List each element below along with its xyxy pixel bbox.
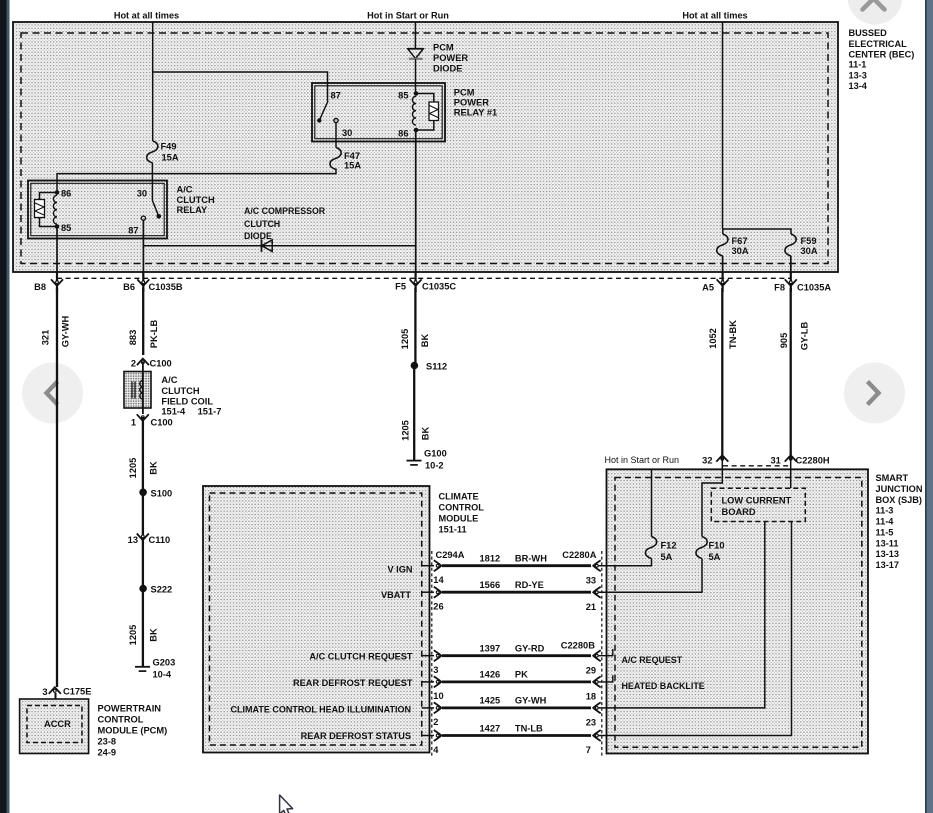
svg-text:C1035C: C1035C: [422, 281, 456, 291]
svg-text:30: 30: [137, 189, 147, 199]
svg-text:1812: 1812: [480, 554, 501, 564]
Smart Junction Box (SJB): [607, 469, 869, 753]
connector arrow left row 5: [434, 702, 442, 713]
svg-text:23: 23: [586, 718, 596, 728]
relay: A/C CLUTCH RELAY box: [28, 181, 167, 239]
wire label BK (lower): [148, 628, 158, 642]
svg-text:11-3: 11-3: [876, 506, 894, 516]
svg-text:REAR DEFROST REQUEST: REAR DEFROST REQUEST: [293, 678, 413, 688]
svg-text:3: 3: [42, 687, 47, 697]
svg-text:C2280H: C2280H: [796, 456, 830, 466]
label POWERTRAIN CONTROL MODULE (PCM): [98, 703, 168, 757]
connector pin 31 C2280H: [770, 455, 829, 465]
wire F5 through connector: [415, 272, 417, 292]
svg-text:CENTER (BEC): CENTER (BEC): [849, 50, 915, 60]
svg-text:C110: C110: [149, 535, 171, 545]
wire label BK (F5 lower): [421, 427, 431, 441]
svg-text:1425: 1425: [480, 696, 501, 706]
label Hot in Start or Run (top): [367, 11, 449, 21]
svg-text:F59: F59: [801, 236, 817, 246]
right sidebar bar: [925, 0, 933, 813]
svg-text:CLIMATE: CLIMATE: [439, 492, 479, 502]
svg-text:F5: F5: [395, 281, 406, 291]
node: pin 85 dot: [55, 223, 72, 233]
svg-text:30A: 30A: [732, 246, 749, 256]
svg-text:F8: F8: [774, 283, 785, 293]
wire label 1425: [480, 696, 501, 706]
PCM relay switch blade pin 87: [317, 101, 328, 123]
svg-text:VBATT: VBATT: [381, 590, 411, 600]
svg-text:86: 86: [398, 128, 408, 138]
connector pin 13 C110: [128, 534, 171, 545]
wire: hot at all times down to F49: [152, 22, 154, 141]
svg-text:POWER: POWER: [454, 98, 489, 108]
svg-text:CONTROL: CONTROL: [439, 503, 485, 513]
svg-text:151-4: 151-4: [161, 406, 186, 416]
label PCM POWER DIODE: [433, 42, 468, 73]
svg-text:5A: 5A: [709, 552, 721, 562]
svg-text:PCM: PCM: [454, 87, 475, 97]
svg-text:HEATED BACKLITE: HEATED BACKLITE: [622, 681, 705, 691]
svg-text:10: 10: [433, 691, 443, 701]
svg-text:11-5: 11-5: [876, 527, 894, 537]
svg-text:14: 14: [433, 575, 444, 585]
wire LCB to defrost status row: [597, 522, 792, 736]
BEC inner dashed border: [21, 33, 828, 264]
svg-text:BUSSED: BUSSED: [849, 28, 888, 38]
label A/C COMPRESSOR CLUTCH DIODE: [244, 206, 326, 241]
node S112: [411, 362, 448, 372]
wire label BR-WH: [515, 554, 547, 564]
wire label GY-WH: [61, 315, 71, 347]
svg-text:1427: 1427: [480, 723, 501, 733]
wire label 1205 (F5 lower): [401, 420, 411, 441]
wire label GY-RD: [515, 644, 545, 654]
svg-text:A/C: A/C: [161, 375, 177, 385]
connector pin B8: [34, 279, 63, 292]
connector arrow left row 2: [434, 587, 442, 598]
label A/C REQUEST: [622, 655, 683, 665]
svg-text:1397: 1397: [480, 644, 501, 654]
svg-text:G100: G100: [424, 449, 447, 459]
svg-text:PCM: PCM: [433, 42, 454, 52]
CCM pin name labels: [231, 565, 413, 742]
svg-text:18: 18: [586, 692, 596, 702]
wire: clutch diode link 87wire to F5 wire: [143, 245, 415, 247]
wire label RD-YE: [515, 580, 544, 590]
svg-text:1: 1: [131, 417, 136, 427]
A/C relay coil resistor: [35, 200, 45, 218]
node S100: [139, 488, 172, 498]
svg-text:13-4: 13-4: [849, 81, 868, 91]
ACCR dashed box: [27, 706, 82, 743]
pin number 33 (SJB): [586, 575, 596, 585]
svg-text:TN-LB: TN-LB: [515, 723, 543, 733]
wire pin31 into LCB: [790, 455, 792, 488]
svg-text:Hot at all times: Hot at all times: [682, 11, 747, 21]
connector arrow right row 1: [593, 560, 601, 571]
CCM pin stub row 1 (V IGN): [422, 565, 434, 567]
fuse F12 5A: [645, 469, 676, 562]
svg-text:33: 33: [586, 575, 596, 585]
wire: stub to F67: [722, 229, 724, 234]
connector arrow right row 4: [593, 676, 601, 687]
svg-text:1205: 1205: [128, 625, 138, 646]
left sidebar bar: [0, 0, 10, 813]
wire label TN-BK: [728, 320, 738, 349]
connector pin A5: [702, 279, 728, 292]
svg-text:F12: F12: [661, 541, 677, 551]
svg-text:13-13: 13-13: [876, 549, 900, 559]
prev nav button: [22, 363, 83, 424]
svg-text:GY-WH: GY-WH: [61, 315, 71, 347]
fuse F59 30A: [785, 234, 818, 256]
wire 1397 GY-RD: [442, 654, 591, 657]
svg-text:GY-WH: GY-WH: [515, 696, 547, 706]
PCM relay coil resistor: [429, 102, 439, 121]
wire label BK (F5 upper): [420, 334, 430, 348]
svg-text:1205: 1205: [401, 420, 411, 441]
pin number 26 (CCM): [433, 602, 443, 612]
pin number 3 (CCM): [433, 665, 438, 675]
wire: F49 to A/C clutch relay pin 30: [151, 163, 153, 201]
svg-text:Hot in Start or Run: Hot in Start or Run: [605, 455, 680, 465]
connector arrow right row 2: [593, 587, 601, 598]
wire 1205 BK : C100 to G203: [142, 417, 144, 666]
svg-text:24-9: 24-9: [98, 747, 117, 757]
wire: pin 30 down to fuse F47: [335, 123, 337, 148]
svg-text:15A: 15A: [162, 153, 179, 163]
connector pin 3 C175E: [42, 686, 91, 697]
wire B6 through connector: [142, 272, 144, 292]
wire label 1566: [480, 580, 501, 590]
svg-text:10-4: 10-4: [153, 669, 172, 679]
svg-text:BK: BK: [421, 427, 431, 441]
wire A5 through connector: [721, 272, 723, 292]
CCM inner dashed border: [210, 493, 422, 745]
Powertrain Control Module (PCM) box: [20, 699, 89, 754]
wire: diode to relay coil pin 85: [415, 59, 417, 94]
node: pin 86 dot: [55, 189, 72, 199]
wire label 1397: [480, 644, 501, 654]
wire: branch to PCM power relay pin 87: [153, 72, 328, 101]
label HEATED BACKLITE: [622, 681, 705, 691]
svg-text:5A: 5A: [661, 552, 673, 562]
node: PCM relay pin 85 dot: [398, 90, 418, 100]
wire 905 GY-LB : F8 to SJB pin 31: [790, 288, 792, 455]
pin number 2 (CCM): [433, 717, 438, 727]
svg-text:ACCR: ACCR: [44, 719, 71, 729]
svg-text:F49: F49: [161, 142, 177, 152]
svg-text:26: 26: [433, 602, 443, 612]
svg-text:31: 31: [770, 456, 780, 466]
svg-text:ELECTRICAL: ELECTRICAL: [849, 39, 908, 49]
svg-text:CLUTCH: CLUTCH: [244, 219, 280, 229]
svg-text:CLUTCH: CLUTCH: [161, 386, 199, 396]
svg-text:13-17: 13-17: [876, 560, 900, 570]
svg-text:C2280A: C2280A: [562, 550, 596, 560]
svg-text:11-4: 11-4: [876, 517, 895, 527]
relay: PCM POWER RELAY #1 box: [312, 83, 445, 142]
wire: F59 to connector F8: [790, 256, 792, 272]
svg-text:13-3: 13-3: [849, 70, 867, 80]
svg-text:BR-WH: BR-WH: [515, 554, 547, 564]
wire label 321: [41, 330, 51, 346]
label SMART JUNCTION BOX (SJB): [876, 473, 923, 570]
A/C CLUTCH FIELD COIL box: [124, 372, 151, 409]
svg-text:C1035B: C1035B: [149, 282, 183, 292]
svg-text:C175E: C175E: [63, 686, 91, 696]
SJB inner dashed border: [615, 478, 862, 748]
heated backlite hook wire: [597, 675, 613, 682]
connector pin 32: [702, 455, 728, 465]
wire: A/C relay pin 85 down to connector B8: [56, 227, 58, 273]
connector pin 1 C100: [131, 414, 173, 427]
connector arrow left row 6: [434, 730, 442, 741]
label A/C CLUTCH RELAY: [177, 184, 215, 215]
connector arrow right row 6: [593, 730, 601, 741]
svg-text:A/C COMPRESSOR: A/C COMPRESSOR: [244, 206, 326, 216]
svg-text:CONTROL: CONTROL: [98, 714, 144, 724]
svg-text:32: 32: [702, 456, 712, 466]
svg-text:C100: C100: [151, 417, 173, 427]
svg-text:23-8: 23-8: [98, 736, 117, 746]
svg-text:JUNCTION: JUNCTION: [876, 484, 923, 494]
connector arrow left row 4: [434, 676, 442, 687]
fuse F10 5A: [696, 537, 725, 562]
svg-text:TN-BK: TN-BK: [728, 320, 738, 349]
svg-text:321: 321: [41, 330, 51, 346]
svg-text:4: 4: [433, 745, 439, 755]
svg-text:29: 29: [586, 665, 596, 675]
svg-text:Hot at all times: Hot at all times: [114, 11, 179, 21]
wire: A/C relay pin 87 down to connector B6: [142, 220, 144, 272]
connector arrow right row 5: [593, 702, 601, 713]
pin number 21 (SJB): [586, 602, 596, 612]
wire: Hot in Start or Run down to diode: [414, 22, 416, 48]
wire label 1205 (upper): [128, 458, 138, 479]
svg-text:BK: BK: [149, 461, 159, 475]
close button: [848, 0, 903, 25]
svg-text:151-7: 151-7: [198, 406, 222, 416]
svg-text:Hot in Start or Run: Hot in Start or Run: [367, 11, 449, 21]
wire label 1426: [480, 670, 501, 680]
svg-text:3: 3: [433, 665, 438, 675]
svg-text:DIODE: DIODE: [433, 63, 462, 73]
connector pin 2 C100: [131, 359, 172, 369]
connector label C294A: [436, 550, 465, 560]
svg-text:13-11: 13-11: [876, 538, 899, 548]
label PCM POWER RELAY #1: [454, 87, 497, 117]
wires linking coil/resistor to pins 86,85: [40, 193, 58, 227]
wire: pin 86 down to connector F5: [415, 130, 417, 272]
connector pin F8 C1035A: [774, 279, 831, 292]
wire 1566 RD-YE: [442, 591, 591, 594]
BEC label: [849, 28, 915, 91]
svg-text:G203: G203: [153, 657, 176, 667]
svg-text:2: 2: [131, 359, 136, 369]
label Hot in Start or Run (SJB): [605, 455, 680, 465]
ground G100: [407, 449, 447, 471]
svg-text:905: 905: [779, 333, 789, 349]
svg-text:GY-RD: GY-RD: [515, 644, 545, 654]
wire through field coil: [142, 362, 144, 414]
node: PCM relay pin 86 dot: [398, 128, 418, 139]
svg-text:87: 87: [331, 91, 341, 101]
svg-text:DIODE: DIODE: [244, 231, 272, 241]
wire 1205 BK : F5 to S112: [414, 288, 416, 366]
A/C request hook wire: [597, 649, 613, 656]
svg-text:86: 86: [61, 189, 71, 199]
svg-text:A/C CLUTCH REQUEST: A/C CLUTCH REQUEST: [309, 652, 412, 662]
pin number 14 (CCM): [433, 575, 444, 585]
connector pin B6 C1035B: [123, 279, 183, 292]
svg-text:PK-LB: PK-LB: [149, 320, 159, 349]
PCM relay coil winding: [412, 96, 416, 125]
svg-text:15A: 15A: [344, 160, 361, 170]
connector C294A dashed line: [431, 551, 433, 757]
svg-text:B8: B8: [34, 282, 46, 292]
wire label 905: [779, 333, 789, 349]
pin number 10 (CCM): [433, 691, 443, 701]
CCM pin stub row 6 (REAR DEFROST STATUS): [422, 735, 434, 737]
wire pin32 into SJB to F10: [702, 455, 722, 537]
svg-text:7: 7: [586, 745, 591, 755]
pin number 29 (SJB): [586, 665, 596, 675]
wire label 1812: [480, 554, 501, 564]
svg-text:CLUTCH: CLUTCH: [177, 195, 215, 205]
svg-text:PK: PK: [515, 670, 528, 680]
svg-text:BK: BK: [148, 628, 158, 642]
connector C2280 dashed line (SJB side): [601, 551, 603, 757]
fuse F67 30A: [717, 234, 749, 256]
svg-text:151-11: 151-11: [439, 525, 467, 535]
wire S112 to G100: [413, 366, 415, 461]
pin label 30 (A/C relay): [137, 189, 147, 199]
svg-text:BOX (SJB): BOX (SJB): [876, 495, 922, 505]
wire label GY-WH: [515, 696, 547, 706]
svg-text:MODULE (PCM): MODULE (PCM): [98, 725, 168, 735]
field coil winding: [140, 381, 143, 400]
wires linking PCM relay coil/resistor: [416, 94, 434, 131]
svg-text:BK: BK: [420, 334, 430, 348]
svg-text:1205: 1205: [400, 329, 410, 350]
wire label 1205 (lower): [128, 625, 138, 646]
LOW CURRENT BOARD box: [711, 488, 805, 521]
svg-text:C2280B: C2280B: [561, 640, 595, 650]
svg-text:C100: C100: [150, 359, 172, 369]
label Hot at all times (left): [114, 11, 179, 21]
pin number 7 (SJB): [586, 745, 591, 755]
wire label 1052: [708, 328, 718, 349]
pin number 18 (SJB): [586, 692, 596, 702]
connector label C2280A: [562, 550, 596, 560]
A/C clutch relay switch blade pin30->87: [141, 201, 161, 221]
wire: hot at all times (right) down: [722, 22, 724, 229]
svg-text:10-2: 10-2: [425, 460, 444, 470]
svg-text:1566: 1566: [480, 580, 501, 590]
svg-text:1052: 1052: [708, 328, 718, 349]
svg-text:C1035A: C1035A: [797, 283, 831, 293]
svg-text:85: 85: [398, 90, 408, 100]
svg-text:A5: A5: [702, 283, 714, 293]
fuse F47 15A: [330, 148, 361, 171]
svg-text:883: 883: [128, 330, 138, 346]
label Hot at all times (right): [682, 11, 747, 21]
wire label 1205 (F5 upper): [400, 329, 410, 350]
wire B8 through connector: [56, 272, 58, 292]
Bussed Electrical Center (BEC) box: [13, 22, 838, 272]
wire label BK (upper): [149, 461, 159, 475]
pin label 87 (A/C relay): [128, 226, 138, 236]
wire: branch to F59: [723, 229, 792, 234]
diode: A/C COMPRESSOR CLUTCH DIODE: [262, 240, 273, 252]
svg-text:GY-LB: GY-LB: [800, 322, 810, 351]
svg-text:S112: S112: [426, 362, 447, 372]
node S222: [139, 585, 172, 595]
svg-text:1205: 1205: [128, 458, 138, 479]
svg-text:RD-YE: RD-YE: [515, 580, 544, 590]
connector dashed line C1035 row: [57, 277, 791, 279]
svg-text:30A: 30A: [801, 246, 818, 256]
svg-text:F47: F47: [344, 151, 360, 161]
wire 1427 TN-LB: [442, 734, 591, 737]
CCM pin stub row 4 (REAR DEFROST REQUEST): [422, 681, 434, 683]
svg-text:MODULE: MODULE: [439, 514, 479, 524]
svg-text:A/C: A/C: [177, 184, 193, 194]
wire 1426 PK: [442, 681, 591, 684]
wire into PCM module: [55, 693, 57, 708]
svg-text:11-1: 11-1: [849, 59, 867, 69]
svg-text:V IGN: V IGN: [387, 565, 412, 575]
wire label TN-LB: [515, 723, 543, 733]
wire label PK-LB: [149, 320, 159, 349]
svg-text:SMART: SMART: [876, 473, 909, 483]
svg-text:85: 85: [61, 223, 71, 233]
wire 1052 TN-BK : A5 to SJB pin 32: [721, 288, 723, 455]
svg-text:2: 2: [433, 717, 438, 727]
svg-text:LOW CURRENT: LOW CURRENT: [722, 496, 792, 506]
connector C2280H dashed line: [723, 465, 790, 467]
CCM pin stub row 5 (CLIMATE CONTROL HEAD ILLUMINATION): [422, 707, 434, 709]
connector pin F5 C1035C: [395, 279, 456, 291]
wire F10 to VBATT row: [597, 559, 702, 593]
svg-text:F10: F10: [709, 541, 725, 551]
svg-text:BOARD: BOARD: [722, 507, 756, 517]
connector arrow left row 1: [434, 560, 442, 571]
svg-text:FIELD COIL: FIELD COIL: [161, 397, 213, 407]
wire label 1427: [480, 723, 501, 733]
ground G203: [135, 657, 175, 679]
connector arrow left row 3: [434, 650, 442, 661]
next nav button: [844, 363, 905, 424]
svg-text:B6: B6: [123, 282, 135, 292]
wire 883 PK-LB : B6 to C100: [142, 288, 144, 355]
wire F12 to V IGN row: [597, 559, 652, 566]
svg-text:87: 87: [128, 226, 138, 236]
wire 321 GY-WH : B8 to PCM: [56, 288, 58, 687]
svg-text:21: 21: [586, 602, 596, 612]
svg-text:13: 13: [128, 535, 138, 545]
label A/C CLUTCH FIELD COIL: [161, 375, 221, 417]
svg-text:POWERTRAIN: POWERTRAIN: [98, 703, 162, 713]
pin number 23 (SJB): [586, 718, 596, 728]
svg-text:S222: S222: [151, 585, 173, 595]
wire label 883: [128, 330, 138, 346]
pin number 4 (CCM): [433, 745, 439, 755]
connector arrow right row 3: [593, 650, 601, 661]
label CLIMATE CONTROL MODULE 151-11: [439, 492, 485, 535]
